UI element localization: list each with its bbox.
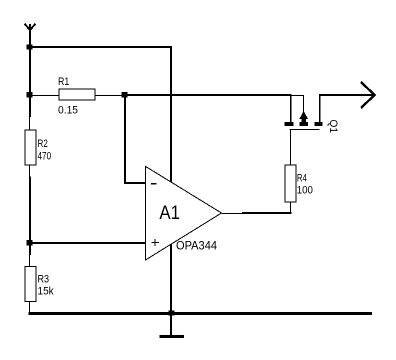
wire: left rail middle segment	[29, 177, 31, 256]
wire: op-amp V- vertical to ground rail	[170, 230, 172, 314]
resistor R3 body	[25, 267, 36, 302]
wire: R1 left lead	[30, 95, 59, 97]
transistor Q1 drain lead	[290, 94, 292, 122]
wire: R4 top lead to gate	[290, 130, 292, 165]
svg-text:R1: R1	[58, 76, 69, 88]
wire: R2 bottom lead	[29, 165, 31, 177]
svg-text:470: 470	[38, 150, 52, 162]
output arrow head	[361, 82, 375, 108]
svg-text:OPA344: OPA344	[176, 241, 218, 253]
wire: op-amp V+ vertical drop	[170, 46, 172, 182]
transistor Q1 bulk arrow stem	[301, 119, 306, 122]
wire: op-amp output to R4	[242, 212, 292, 214]
node: R1 right feedback junction	[122, 92, 128, 98]
svg-text:0.15: 0.15	[58, 104, 78, 116]
svg-text:100: 100	[297, 184, 313, 196]
node: R1 left junction	[27, 92, 33, 98]
op-amp inverting input minus sign	[151, 183, 157, 185]
op-amp non-inverting input plus sign	[151, 239, 159, 246]
transistor Q1 channel dash 2	[299, 122, 308, 126]
node: non-inverting input junction	[27, 240, 33, 246]
transistor Q1 channel dash 1	[285, 122, 294, 126]
resistor R4 body	[285, 165, 296, 202]
svg-text:15k: 15k	[38, 286, 55, 298]
wire: op-amp output lead	[222, 213, 243, 215]
svg-text:Q1: Q1	[327, 120, 339, 134]
wire: feedback into inverting input	[124, 182, 146, 184]
node: antenna / top rail junction	[27, 45, 33, 50]
transistor Q1 channel dash 3	[315, 122, 323, 126]
antenna	[25, 24, 36, 48]
wire: source to output arrow	[319, 94, 374, 96]
transistor Q1 source lead	[319, 94, 321, 122]
wire: R3 top lead	[29, 255, 31, 267]
transistor Q1 gate line	[290, 129, 320, 131]
wire: non-inverting input from left rail	[29, 242, 146, 244]
wire: R2 top lead	[29, 117, 31, 131]
wire: feedback vertical down from node	[124, 93, 126, 184]
svg-text:R4: R4	[297, 173, 307, 185]
wire: drain to bulk top link	[290, 95, 304, 97]
svg-text:R3: R3	[38, 274, 50, 286]
wire: R1 right lead to feedback node	[95, 95, 124, 97]
wire: feedback node to MOSFET drain	[124, 94, 292, 96]
svg-text:R2: R2	[38, 138, 48, 150]
ground	[160, 313, 185, 337]
node: ground junction	[169, 311, 175, 316]
op-amp A1 triangle	[146, 166, 222, 260]
wire: top rail	[29, 46, 172, 48]
wire: bottom ground rail	[29, 312, 373, 315]
svg-text:A1: A1	[159, 203, 180, 224]
wire: R4 bottom lead	[290, 202, 292, 213]
transistor Q1 bulk arrow	[299, 111, 308, 119]
resistor R2 body	[25, 130, 36, 165]
wire: R3 bottom lead	[29, 301, 31, 314]
wire: left rail upper segment	[29, 29, 31, 117]
resistor R1 body	[59, 89, 95, 100]
transistor Q1 bulk lead	[303, 95, 305, 112]
